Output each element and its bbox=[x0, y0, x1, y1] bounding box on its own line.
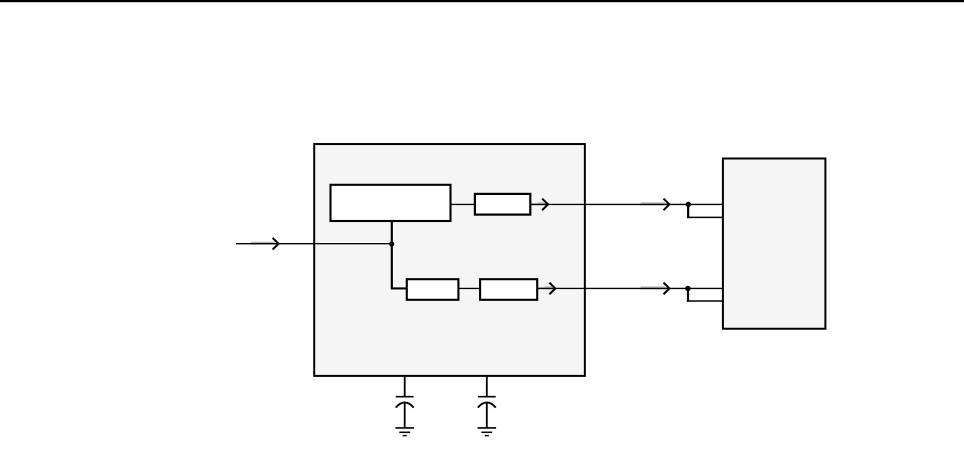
internal block D (lower stage 2) bbox=[480, 279, 537, 300]
input flow arrow bbox=[250, 238, 279, 250]
node bottom output junction bbox=[685, 286, 690, 291]
ground at C2 bbox=[478, 428, 497, 436]
internal block A (reference) bbox=[331, 185, 451, 221]
bottom output flow arrow at block D bbox=[538, 283, 555, 295]
top mid-wire flow arrow bbox=[640, 199, 670, 211]
wire branch from block A down and to block C bbox=[392, 223, 406, 288]
node input junction bbox=[389, 241, 394, 246]
internal block C (lower stage 1) bbox=[407, 279, 459, 300]
ground at C1 bbox=[395, 428, 414, 436]
capacitor C2 bbox=[478, 376, 496, 428]
wire block B to load (top output) bbox=[532, 203, 584, 206]
wire top step into load bbox=[687, 204, 723, 218]
wire bottom step into load bbox=[687, 288, 723, 301]
wire block C to block D bbox=[460, 287, 479, 290]
wire input bbox=[316, 242, 390, 245]
node top output junction bbox=[686, 202, 691, 207]
capacitor C1 bbox=[396, 376, 414, 428]
wire block D to load (bottom output) bbox=[539, 287, 584, 290]
wire block A to block B bbox=[452, 203, 474, 206]
bottom mid-wire flow arrow bbox=[640, 283, 670, 295]
load block U2 bbox=[723, 159, 826, 329]
top output flow arrow at block B bbox=[532, 199, 549, 211]
internal block B (top pass element) bbox=[475, 194, 530, 215]
horizontal rule bbox=[0, 0, 964, 2]
regulator block U1 bbox=[314, 144, 585, 376]
